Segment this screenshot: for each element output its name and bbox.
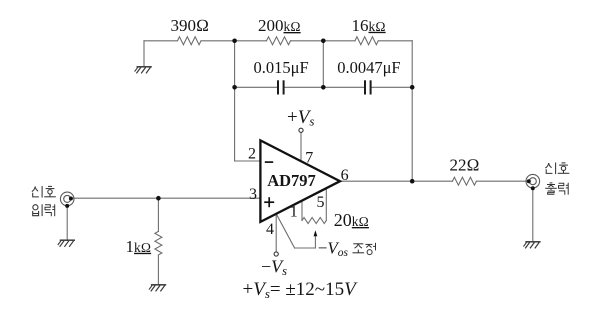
svg-text:2: 2: [248, 146, 256, 163]
connector J2 output: [526, 174, 540, 190]
wire pin4: [275, 214, 277, 252]
resistor R5 22 zigzag: [452, 177, 476, 185]
svg-text:3: 3: [249, 186, 257, 203]
node cap-right junction: [410, 85, 415, 90]
label korean jojeong (adjust): [353, 244, 365, 253]
svg-text:5: 5: [317, 194, 325, 211]
wire wiper horizontal: [295, 247, 316, 249]
wire top row right: [378, 40, 412, 42]
svg-text:1kΩ: 1kΩ: [126, 237, 152, 256]
wire input gnd stem: [66, 206, 68, 240]
resistor R1 390 zigzag: [178, 37, 202, 45]
wire left column: [234, 41, 236, 161]
wire cap row c: [372, 86, 413, 88]
label korean output line1: sinho: [545, 163, 555, 175]
wire cap row b: [285, 86, 364, 88]
wire wiper diagonal: [276, 214, 294, 248]
svg-text:+Vs= ±12~15V: +Vs= ±12~15V: [243, 279, 359, 301]
wire top row left: [144, 40, 178, 42]
svg-text:0.0047μF: 0.0047μF: [337, 58, 400, 77]
terminal -Vs circle: [274, 252, 278, 256]
label korean input line2: ipryeok: [33, 204, 42, 216]
junction dots: [156, 39, 414, 201]
ground G4 output: [523, 242, 540, 249]
svg-text:1: 1: [290, 203, 298, 220]
node top-left junction: [232, 39, 237, 44]
wire top row mid1: [201, 40, 267, 42]
node cap-mid junction: [321, 85, 326, 90]
wire pin5 lead: [325, 188, 327, 221]
wire G1 stem: [143, 41, 145, 67]
label korean input line1: sinho: [32, 186, 42, 198]
svg-text:390Ω: 390Ω: [171, 16, 210, 35]
svg-text:16kΩ: 16kΩ: [352, 16, 386, 35]
node top-mid junction: [321, 39, 326, 44]
wire pin2 horizontal: [235, 160, 261, 162]
resistor R3 16k zigzag: [355, 37, 378, 45]
svg-text:4: 4: [266, 221, 274, 238]
resistor R4 1k zigzag vertical: [155, 231, 162, 255]
svg-text:7: 7: [305, 150, 313, 167]
ground G2 input: [58, 240, 75, 247]
op-amp minus sign: [265, 161, 273, 163]
svg-text:0.015μF: 0.015μF: [254, 58, 309, 77]
node output junction: [410, 179, 415, 184]
wire pin7: [300, 132, 302, 162]
terminal +Vs circle: [299, 128, 303, 132]
node input junction: [156, 196, 161, 201]
wire pin6 out: [340, 180, 412, 182]
capacitor C2 0.0047uF plates: [365, 80, 371, 94]
wire top row mid2: [291, 40, 356, 42]
wire 1k bottom lead: [157, 255, 159, 284]
wire mid column: [322, 41, 324, 88]
connector J1 input: [60, 192, 74, 208]
wire 1k top lead: [157, 198, 159, 231]
wire cap row a: [235, 86, 277, 88]
ground G3 1k: [149, 285, 166, 292]
svg-text:22Ω: 22Ω: [450, 156, 480, 175]
svg-text:200kΩ: 200kΩ: [258, 16, 301, 35]
wire input signal: [71, 197, 261, 199]
op-amp plus sign: [264, 197, 274, 207]
op-amp U1 triangle: [260, 140, 340, 222]
label korean output line2: chulryeok: [545, 183, 557, 194]
capacitor C1 0.015uF plates: [278, 80, 284, 94]
resistor R2 200k zigzag: [267, 37, 291, 45]
ground G1 top-left: [135, 67, 152, 74]
wire output gnd stem: [532, 188, 534, 241]
wire pin1 lead: [301, 200, 303, 220]
wire out right: [476, 180, 528, 182]
svg-text:AD797: AD797: [267, 171, 316, 190]
wire out mid: [412, 180, 452, 182]
potentiometer VR1 20k zigzag: [302, 218, 326, 224]
wiper arrow head: [314, 230, 318, 236]
node cap-left junction: [232, 85, 237, 90]
wire wiper arrow shaft: [314, 235, 316, 248]
svg-text:6: 6: [341, 167, 349, 184]
wire right vertical: [411, 41, 413, 181]
